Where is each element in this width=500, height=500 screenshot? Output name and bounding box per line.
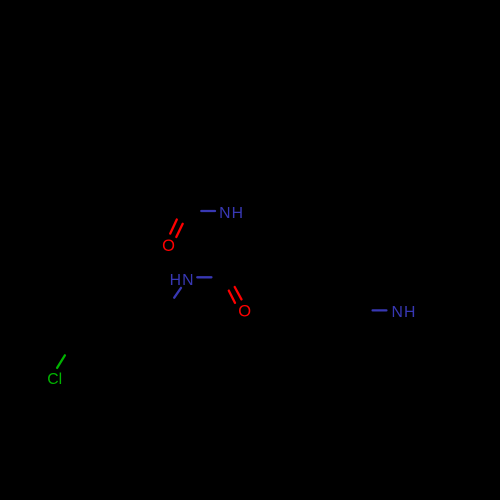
svg-text:O: O: [238, 303, 251, 321]
svg-text:NH: NH: [391, 304, 416, 321]
svg-text:O: O: [162, 237, 175, 255]
wire: bond C(acetyl)-N1 blue half: [201, 210, 215, 212]
svg-text:Cl: Cl: [47, 371, 62, 388]
wire: bond C(aryl)-Cl green half: [57, 355, 65, 368]
wire: C=O double bond O1, line 2 (red half): [176, 224, 182, 237]
wire: C=O double bond O1, line 1 (red half): [170, 220, 177, 234]
svg-text:HN: HN: [170, 272, 195, 289]
wire: C=O double bond O2, line 2 (red half): [235, 287, 242, 299]
wire: C=O double bond O2, line 1 (red half): [229, 291, 235, 303]
wire: bond C-N3 blue half (right NH): [373, 309, 387, 311]
wire: bond N2-C(carbonyl) blue half: [197, 276, 211, 278]
svg-text:NH: NH: [219, 205, 244, 222]
wire: bond N2-CH blue half: [174, 288, 181, 298]
